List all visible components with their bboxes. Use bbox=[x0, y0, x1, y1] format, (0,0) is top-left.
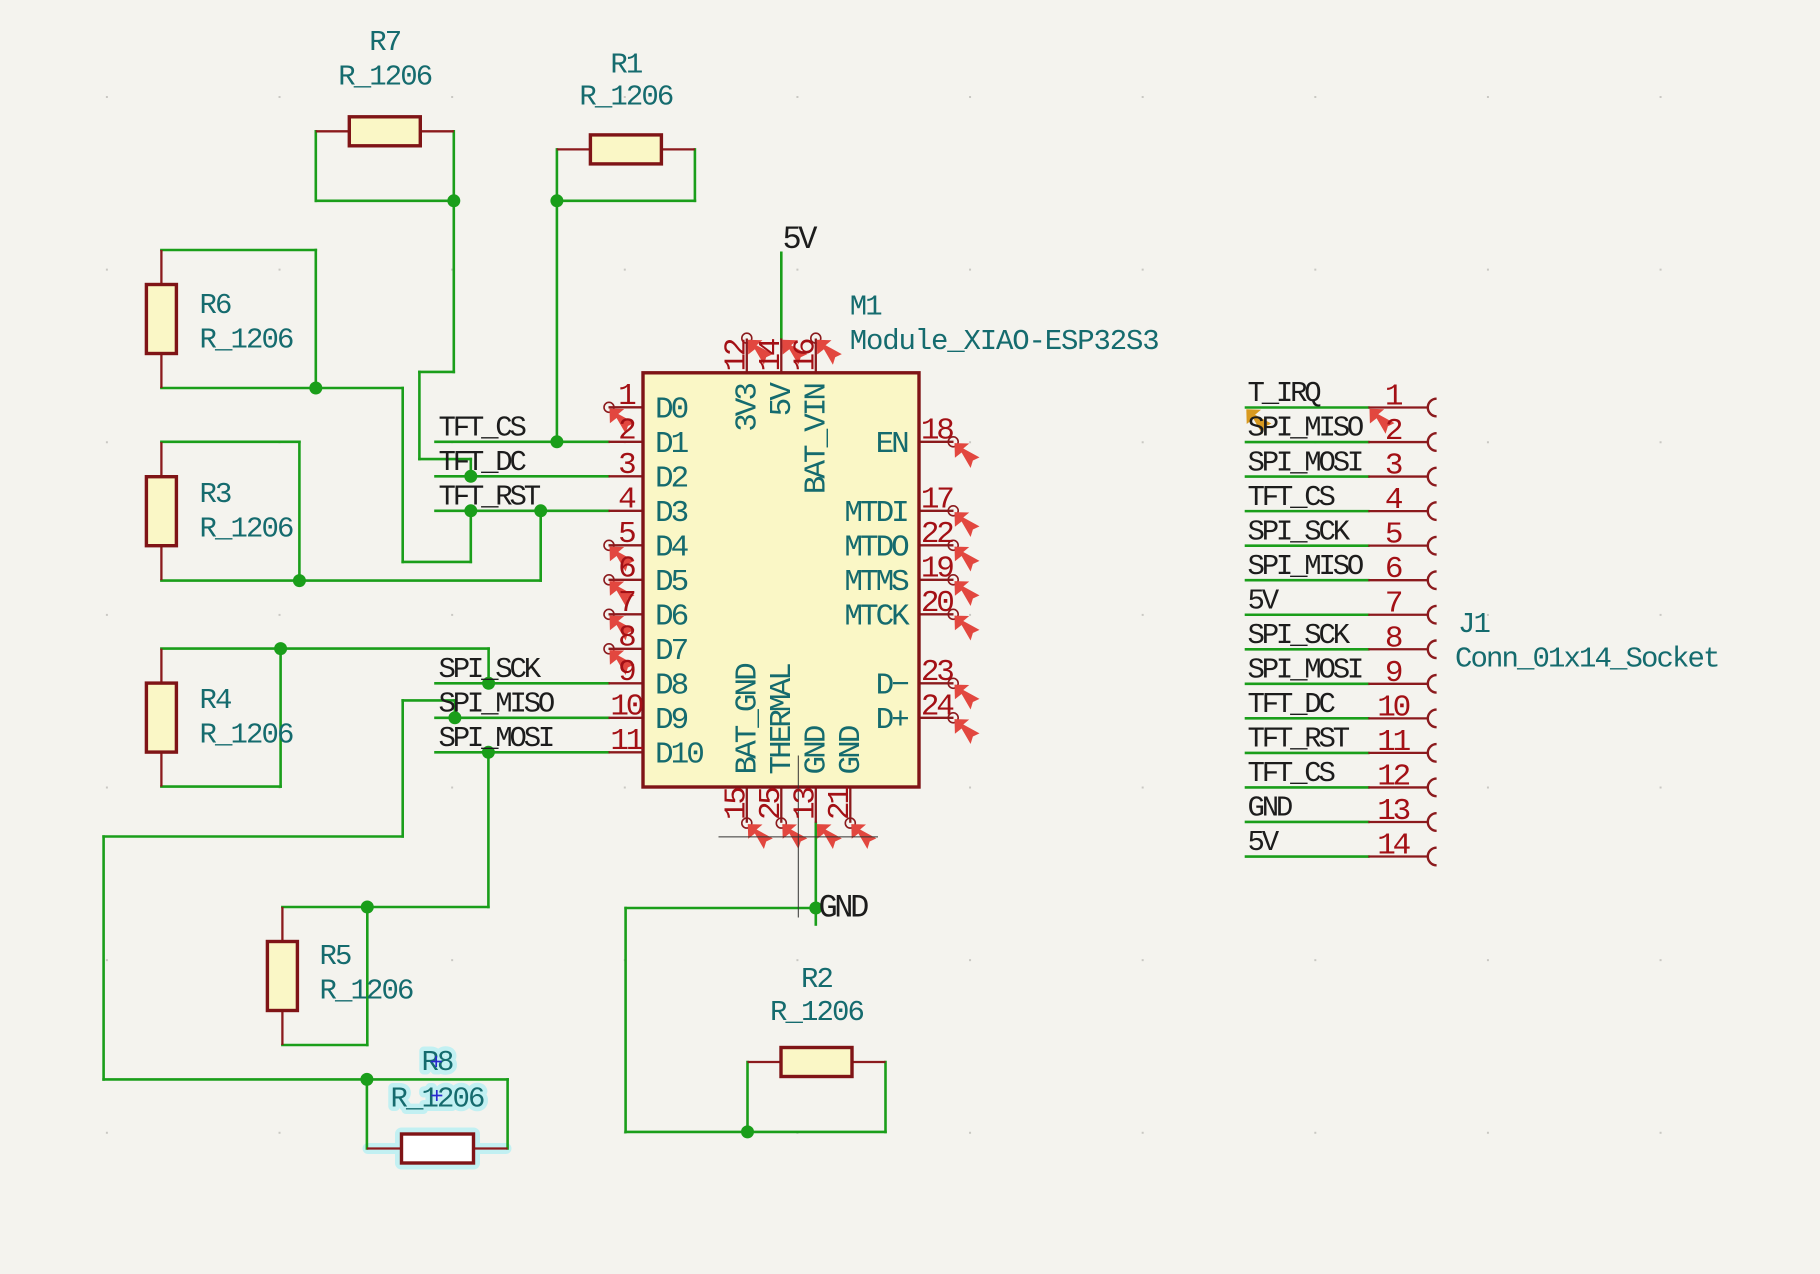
svg-text:D0: D0 bbox=[655, 393, 688, 428]
svg-text:3: 3 bbox=[618, 448, 635, 483]
svg-text:TFT_CS: TFT_CS bbox=[1248, 481, 1335, 514]
svg-text:R_1206: R_1206 bbox=[579, 81, 673, 114]
svg-text:THERMAL: THERMAL bbox=[765, 664, 800, 775]
svg-text:11: 11 bbox=[610, 724, 643, 759]
svg-text:D−: D− bbox=[876, 669, 909, 704]
svg-text:GND: GND bbox=[819, 890, 869, 927]
svg-text:SPI_SCK: SPI_SCK bbox=[1248, 619, 1351, 652]
svg-text:5V: 5V bbox=[1248, 584, 1280, 617]
svg-text:3V3: 3V3 bbox=[730, 384, 765, 432]
svg-text:SPI_SCK: SPI_SCK bbox=[439, 653, 542, 686]
svg-text:D10: D10 bbox=[655, 738, 703, 773]
svg-text:Conn_01x14_Socket: Conn_01x14_Socket bbox=[1455, 642, 1719, 675]
svg-text:J1: J1 bbox=[1458, 608, 1490, 641]
svg-text:SPI_SCK: SPI_SCK bbox=[1248, 515, 1351, 548]
svg-text:7: 7 bbox=[1385, 587, 1402, 622]
svg-text:M1: M1 bbox=[850, 290, 882, 323]
svg-text:D+: D+ bbox=[876, 703, 909, 738]
svg-text:1: 1 bbox=[618, 379, 636, 414]
svg-text:5V: 5V bbox=[1248, 826, 1280, 859]
svg-text:R_1206: R_1206 bbox=[338, 61, 432, 94]
svg-text:R_1206: R_1206 bbox=[320, 975, 414, 1008]
svg-text:SPI_MISO: SPI_MISO bbox=[439, 688, 554, 721]
svg-text:15: 15 bbox=[719, 788, 754, 820]
svg-text:2: 2 bbox=[1385, 414, 1402, 449]
svg-text:5: 5 bbox=[618, 517, 635, 552]
svg-text:SPI_MOSI: SPI_MOSI bbox=[1248, 446, 1362, 479]
svg-text:5: 5 bbox=[1385, 518, 1402, 553]
svg-text:14: 14 bbox=[1377, 829, 1410, 864]
svg-text:7: 7 bbox=[618, 586, 635, 621]
svg-text:6: 6 bbox=[618, 552, 635, 587]
svg-text:19: 19 bbox=[921, 552, 953, 587]
svg-text:D8: D8 bbox=[655, 669, 688, 704]
svg-text:TFT_DC: TFT_DC bbox=[439, 446, 527, 479]
svg-text:R_1206: R_1206 bbox=[200, 324, 294, 357]
svg-text:22: 22 bbox=[921, 517, 953, 552]
svg-text:R_1206: R_1206 bbox=[770, 996, 864, 1029]
svg-text:3: 3 bbox=[1385, 449, 1402, 484]
svg-text:T_IRQ: T_IRQ bbox=[1248, 377, 1322, 410]
svg-text:R6: R6 bbox=[200, 289, 232, 322]
svg-text:12: 12 bbox=[719, 339, 754, 371]
svg-text:GND: GND bbox=[1248, 792, 1292, 825]
svg-text:13: 13 bbox=[1377, 794, 1409, 829]
svg-text:18: 18 bbox=[921, 414, 953, 449]
svg-text:13: 13 bbox=[788, 788, 823, 820]
svg-text:SPI_MISO: SPI_MISO bbox=[1248, 550, 1363, 583]
svg-text:BAT_VIN: BAT_VIN bbox=[799, 384, 834, 495]
svg-text:MTCK: MTCK bbox=[844, 600, 910, 635]
svg-text:17: 17 bbox=[921, 483, 953, 518]
svg-text:MTDO: MTDO bbox=[844, 531, 909, 566]
svg-text:MTDI: MTDI bbox=[844, 496, 907, 531]
svg-text:R7: R7 bbox=[369, 26, 401, 59]
svg-text:D5: D5 bbox=[655, 565, 688, 600]
svg-text:SPI_MISO: SPI_MISO bbox=[1248, 412, 1363, 445]
svg-text:1: 1 bbox=[1385, 380, 1403, 415]
svg-text:D2: D2 bbox=[655, 462, 688, 497]
svg-text:25: 25 bbox=[754, 788, 789, 820]
svg-text:23: 23 bbox=[921, 655, 953, 690]
svg-text:11: 11 bbox=[1377, 725, 1410, 760]
svg-text:D1: D1 bbox=[655, 427, 689, 462]
svg-text:D9: D9 bbox=[655, 703, 688, 738]
svg-text:16: 16 bbox=[788, 339, 823, 371]
svg-text:4: 4 bbox=[1385, 483, 1403, 518]
svg-text:10: 10 bbox=[610, 690, 642, 725]
svg-text:R8: R8 bbox=[421, 1046, 453, 1079]
svg-text:D7: D7 bbox=[655, 634, 688, 669]
svg-text:SPI_MOSI: SPI_MOSI bbox=[439, 722, 553, 755]
svg-text:EN: EN bbox=[876, 427, 909, 462]
svg-text:5V: 5V bbox=[765, 382, 800, 417]
svg-text:GND: GND bbox=[834, 725, 869, 774]
svg-text:10: 10 bbox=[1377, 690, 1409, 725]
svg-text:D3: D3 bbox=[655, 496, 688, 531]
svg-text:Module_XIAO-ESP32S3: Module_XIAO-ESP32S3 bbox=[850, 325, 1159, 358]
svg-text:9: 9 bbox=[1385, 656, 1402, 691]
svg-text:R3: R3 bbox=[200, 478, 232, 511]
svg-text:2: 2 bbox=[618, 414, 635, 449]
svg-text:9: 9 bbox=[618, 655, 635, 690]
svg-text:R_1206: R_1206 bbox=[200, 719, 294, 752]
svg-text:TFT_RST: TFT_RST bbox=[439, 481, 541, 514]
svg-text:MTMS: MTMS bbox=[844, 565, 909, 600]
svg-text:TFT_DC: TFT_DC bbox=[1248, 688, 1336, 721]
svg-text:BAT_GND: BAT_GND bbox=[730, 663, 765, 775]
svg-text:24: 24 bbox=[921, 690, 954, 725]
svg-text:R4: R4 bbox=[200, 684, 232, 717]
svg-text:5V: 5V bbox=[783, 221, 819, 258]
svg-text:D4: D4 bbox=[655, 531, 689, 566]
svg-text:14: 14 bbox=[754, 338, 789, 371]
svg-text:R1: R1 bbox=[610, 49, 642, 82]
svg-text:R2: R2 bbox=[801, 963, 833, 996]
svg-text:8: 8 bbox=[618, 621, 635, 656]
svg-text:TFT_RST: TFT_RST bbox=[1248, 723, 1350, 756]
svg-text:TFT_CS: TFT_CS bbox=[439, 412, 526, 445]
svg-text:12: 12 bbox=[1377, 759, 1409, 794]
svg-text:SPI_MOSI: SPI_MOSI bbox=[1248, 654, 1362, 687]
svg-text:4: 4 bbox=[618, 483, 636, 518]
svg-text:8: 8 bbox=[1385, 621, 1402, 656]
svg-text:GND: GND bbox=[799, 725, 834, 774]
svg-text:21: 21 bbox=[823, 787, 858, 820]
svg-text:R_1206: R_1206 bbox=[200, 513, 294, 546]
svg-text:TFT_CS: TFT_CS bbox=[1248, 757, 1335, 790]
svg-text:D6: D6 bbox=[655, 600, 688, 635]
svg-text:R5: R5 bbox=[320, 940, 352, 973]
svg-text:20: 20 bbox=[921, 586, 953, 621]
svg-text:6: 6 bbox=[1385, 552, 1402, 587]
